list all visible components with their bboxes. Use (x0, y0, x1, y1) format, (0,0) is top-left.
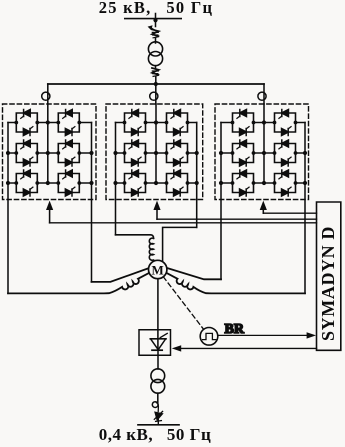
gate control arrow into U2 (156, 210, 158, 220)
wire: centre phase line of U1 (47, 104, 49, 183)
transformer T1 secondary winding (148, 52, 162, 66)
motor M1 (synchronous motor) (149, 260, 167, 278)
circuit breaker QF1 (152, 29, 159, 37)
node: U2 centre junction row 2 (154, 151, 158, 155)
node: U2 rail junctions row 3 (113, 181, 117, 185)
stator winding phase b coil (149, 238, 156, 262)
converter bridge cabinet U3 (dashed enclosure) (215, 104, 309, 200)
wire: bus drop to right converter (263, 84, 265, 104)
thyristor module V311 (anti-parallel pair) (231, 110, 256, 136)
thyristor module V331 (anti-parallel pair) (231, 170, 256, 196)
wire: BR speed feedback to SYMADYN (arrow) (218, 334, 308, 336)
wire: breaker to transformer T1 (155, 38, 157, 44)
thyristor V40 inside rectifier (150, 333, 167, 350)
stator winding phase a coil (8, 271, 153, 294)
disconnector pigtail on 0.4 kV side (152, 402, 158, 408)
wire: U2 left output rail (115, 123, 117, 235)
transformer T2 winding 1 (151, 369, 165, 383)
wire: control line SYMADYN to U1 (50, 222, 317, 224)
stator winding phase b (centre) conductor from U2 left rail (116, 235, 154, 239)
thyristor module V132 (anti-parallel pair) (56, 170, 81, 196)
field rectifier box U4 (139, 330, 171, 356)
thyristor module V312 (anti-parallel pair) (273, 110, 298, 136)
current transformer pigtail on middle drop (150, 92, 158, 100)
wire: U1 row 1 interconnects (8, 122, 92, 124)
25 kV busbar (125, 18, 181, 20)
node: U3 rail junctions row 3 (219, 181, 223, 185)
wire: U3 row 1 interconnects (221, 122, 305, 124)
breaker / arrow on 0.4 kV feeder (154, 411, 162, 424)
wire: bus drop to middle converter (155, 84, 157, 104)
node: U3 centre junction row 3 (262, 181, 266, 185)
node: U3 rail junctions row 2 (219, 151, 223, 155)
node: bus tee at main feeder (154, 82, 158, 86)
wire: U1 right output rail (91, 123, 93, 282)
transformer T1 primary winding (148, 42, 162, 56)
wire: SYMADYN field control to rectifier (arrow) (181, 347, 317, 349)
disconnector QS1 (withdrawable arrow) (148, 25, 156, 30)
wire: U3 right output rail (304, 123, 306, 294)
controller SYMADYN D (317, 202, 341, 350)
current transformer pigtail on right drop (258, 92, 266, 100)
wire: U3 left output rail (220, 123, 222, 280)
node: U3 centre junction row 2 (262, 151, 266, 155)
converter bridge cabinet U2 (dashed enclosure) (106, 104, 203, 200)
thyristor module V221 (anti-parallel pair) (123, 140, 148, 166)
node: U1 rail junctions row 2 (6, 151, 10, 155)
wire: busbar to disconnector (155, 14, 157, 27)
wire: U2 row 2 interconnects (116, 152, 197, 154)
thyristor module V332 (anti-parallel pair) (273, 170, 298, 196)
stator winding phase b return conductor from U2 right rail (163, 227, 197, 261)
node: U2 rail junctions row 2 (113, 151, 117, 155)
thyristor module V122 (anti-parallel pair) (56, 140, 81, 166)
wire: centre phase line of U2 (155, 104, 157, 183)
wire: U2 right output rail (196, 123, 198, 228)
node: U1 rail junctions row 3 (6, 181, 10, 185)
wire: U2 row 1 interconnects (116, 122, 197, 124)
svg-text:SYMADYN D: SYMADYN D (318, 226, 338, 341)
stator winding phase c conductor from U3 left rail (163, 267, 221, 280)
converter bridge cabinet U1 (dashed enclosure) (3, 104, 97, 200)
wire: centre phase line of U3 (263, 104, 265, 183)
stator winding phase a conductor from U1 right rail (92, 267, 153, 282)
svg-text:BR: BR (225, 322, 245, 337)
thyristor module V121 (anti-parallel pair) (14, 140, 39, 166)
wire: motor to field rectifier (157, 279, 159, 350)
wire: control line SYMADYN to U3 (263, 212, 316, 214)
transformer T2 winding 2 (151, 379, 165, 393)
thyristor module V222 (anti-parallel pair) (165, 140, 190, 166)
wire: T2 to disconnector (157, 393, 159, 403)
wire: U3 row 3 interconnects (221, 182, 305, 184)
node: U2 centre junction row 3 (154, 181, 158, 185)
0.4 kV busbar (138, 424, 179, 426)
wire: bus drop to left converter (47, 84, 49, 104)
svg-text:0,4 кВ, 50 Гц: 0,4 кВ, 50 Гц (99, 425, 212, 444)
node: U1 centre junction row 2 (46, 151, 50, 155)
wire: control line SYMADYN to U2 (157, 218, 317, 220)
wire: rectifier to transformer T2 (157, 350, 159, 369)
svg-text:M: M (152, 262, 164, 277)
gate control arrow into U1 (49, 210, 51, 223)
thyristor module V322 (anti-parallel pair) (273, 140, 298, 166)
node: U1 centre junction row 3 (46, 181, 50, 185)
circuit breaker QF2 (152, 68, 159, 76)
thyristor module V131 (anti-parallel pair) (14, 170, 39, 196)
current transformer pigtail on left drop (42, 92, 50, 100)
thyristor module V112 (anti-parallel pair) (56, 110, 81, 136)
node: U1 centre junction row 1 (46, 120, 50, 124)
wire: U1 row 2 interconnects (8, 152, 92, 154)
wire: transformer to breaker QF2 (155, 66, 157, 69)
wire: U1 row 3 interconnects (8, 182, 92, 184)
thyristor module V232 (anti-parallel pair) (165, 170, 190, 196)
stator winding phase c coil (163, 271, 306, 294)
thyristor module V212 (anti-parallel pair) (165, 110, 190, 136)
tachogenerator BR (pulse sensor) (200, 328, 218, 346)
wire: U1 left output rail (7, 123, 9, 294)
thyristor module V111 (anti-parallel pair) (14, 110, 39, 136)
thyristor module V321 (anti-parallel pair) (231, 140, 256, 166)
thyristor module V231 (anti-parallel pair) (123, 170, 148, 196)
gate control arrow into U3 (262, 210, 264, 214)
thyristor module V211 (anti-parallel pair) (123, 110, 148, 136)
node: U3 centre junction row 1 (262, 120, 266, 124)
wire: breaker QF2 down to AC bus (155, 77, 157, 85)
node: feeder tap on 25 kV busbar (153, 18, 157, 22)
AC supply bus (48, 83, 264, 85)
dashed shaft link: motor to tacho BR (163, 277, 203, 330)
wire: U3 row 2 interconnects (221, 152, 305, 154)
node: U2 centre junction row 1 (154, 120, 158, 124)
wire: U2 row 3 interconnects (116, 182, 197, 184)
